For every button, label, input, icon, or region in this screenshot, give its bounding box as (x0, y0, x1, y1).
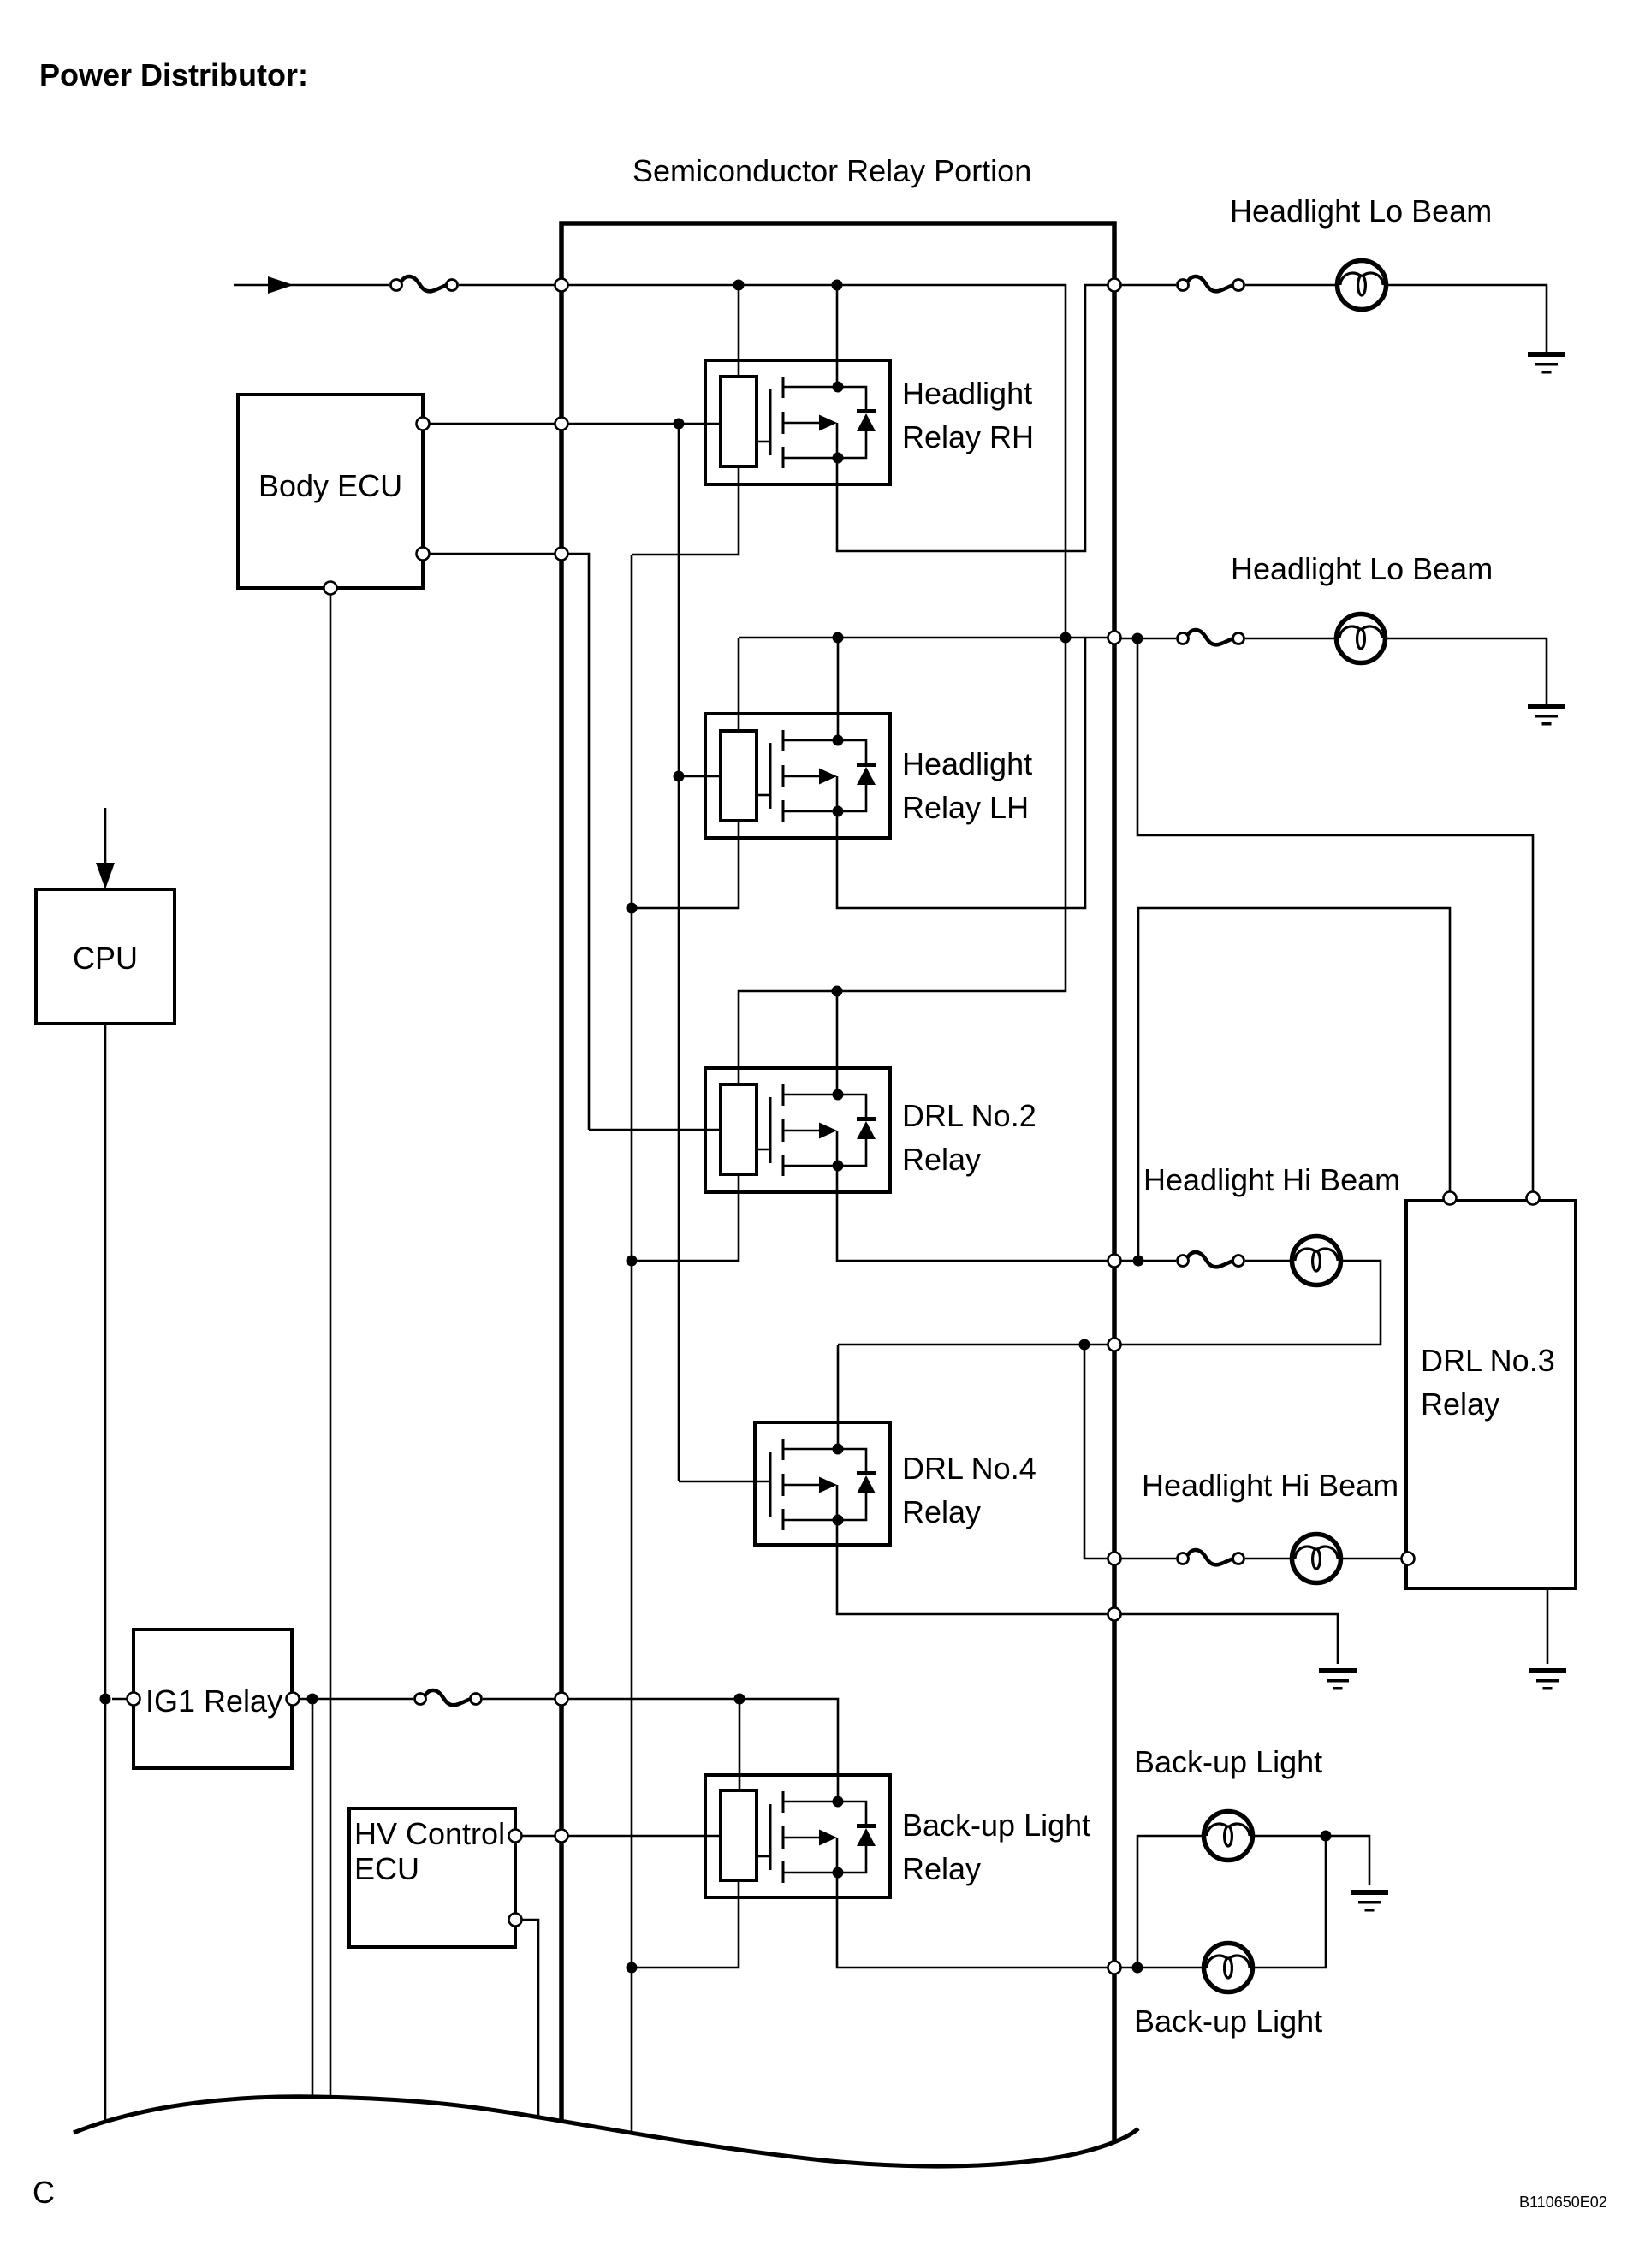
wire: branch down to DRL No.3 pin2 (1137, 638, 1533, 1193)
cut line (wavy continuation) (74, 2097, 1138, 2166)
junction dot: DRL No.2 feed to drain (832, 986, 843, 997)
HV Control ECU box (349, 1808, 515, 1947)
MOSFET Q1 (relay RH) (770, 377, 876, 468)
wire: Body ECU pin2 to box (430, 553, 555, 555)
svg-text:Headlight Lo Beam: Headlight Lo Beam (1231, 551, 1493, 586)
wire: drop to Back-up resistor top (739, 1699, 741, 1790)
semiconductor relay portion box (left, top, right edges) (561, 223, 1114, 2140)
wire: fuse to bulb (1245, 638, 1336, 640)
ground (lo-beam RH) (1528, 352, 1565, 374)
connector: box entry, DRL No.4 feed (1108, 1339, 1121, 1351)
svg-text:Headlight: Headlight (902, 376, 1032, 411)
connector: box entry, IG1 feed (555, 1693, 568, 1706)
wire: drop to relay LH drain (837, 638, 840, 741)
wire: Back-up source output to exit (837, 1867, 1108, 1968)
CPU box (36, 889, 175, 1024)
connector: box entry, HV ECU control (555, 1830, 568, 1843)
wire: branch up to DRL No.3 pin1 (1138, 908, 1450, 1261)
svg-text:IG1 Relay: IG1 Relay (145, 1683, 282, 1719)
wire: Back-up relay gate link (757, 1855, 770, 1858)
fuse F3 (lo-beam LH) (1178, 630, 1244, 644)
MOSFET Q4 (DRL No.4) (770, 1439, 876, 1530)
wire: to IG1 relay input (112, 1698, 127, 1701)
wire: relay LH resistor bottom to control rail (632, 821, 739, 908)
wire: Back-up relay control inside box (568, 1835, 721, 1838)
wire: lo-beam RH circuit (1121, 284, 1176, 287)
wire: relay RH source output to lo-beam RH exit (837, 285, 1108, 551)
svg-text:DRL No.4: DRL No.4 (902, 1451, 1036, 1486)
svg-text:Power Distributor:: Power Distributor: (39, 57, 308, 92)
svg-text:Relay: Relay (902, 1142, 981, 1177)
junction dot: lo-beam LH branch (1132, 633, 1143, 644)
junction dot: hi-beam RH branch (1133, 1256, 1144, 1267)
junction dot: feed to Back-up resistor (734, 1694, 745, 1705)
wire: drop to DRL No.2 drain (836, 991, 839, 1095)
wire: HV ECU pin to box (522, 1835, 555, 1838)
svg-text:Headlight Hi Beam: Headlight Hi Beam (1142, 1468, 1398, 1503)
wire: drop to relay LH resistor top (738, 638, 740, 731)
svg-text:Relay LH: Relay LH (902, 790, 1029, 825)
junction dot: rail at DRL No.2 output line (627, 1256, 638, 1267)
wire: relay RH/LH/DRL4 control line inside box (568, 423, 721, 425)
wire: DRL No.3 bottom to ground (1547, 1590, 1549, 1664)
svg-text:Back-up Light: Back-up Light (1134, 1744, 1322, 1779)
junction dot: CPU line to IG1 relay (100, 1694, 111, 1705)
ground (lo-beam LH) (1528, 704, 1565, 726)
wire: riser to hi-beam LH exit (1084, 1345, 1108, 1559)
wire: HV ECU lower pin down to cut line (522, 1920, 538, 2117)
battery feed arrow (234, 284, 389, 287)
svg-text:Headlight Lo Beam: Headlight Lo Beam (1230, 193, 1492, 229)
wire: DRL No.2 source output to hi-beam exit (837, 1167, 1108, 1261)
wire: lo-beam LH feed line (739, 637, 1108, 639)
wire: IG1 feed bus inside box (568, 1699, 838, 1802)
wire: Body ECU bottom pin down to cut line (330, 595, 332, 2099)
IG1 Relay box (134, 1630, 292, 1768)
resistor (DRL No.2 control) (721, 1084, 757, 1174)
wire: relay LH control (679, 775, 721, 778)
wire: bulb return into box (DRL No.4 feed) (1121, 1261, 1381, 1345)
relay DRL No.4 outer box (755, 1422, 890, 1545)
wire: bulb to ground (1387, 285, 1547, 352)
connector: box exit, back-up output (1108, 1962, 1121, 1974)
wire: bulb to ground (1386, 638, 1547, 704)
fuse F5 (hi-beam LH) (1178, 1550, 1244, 1564)
wire: IG1 output to fuse (300, 1698, 413, 1701)
connector: box exit, hi-beam RH (1108, 1255, 1121, 1268)
MOSFET Q5 (Back-up Light Relay) (770, 1791, 876, 1883)
junction dot: hi-beam LH rail tap (1079, 1339, 1090, 1351)
svg-text:Headlight: Headlight (902, 746, 1032, 781)
svg-text:B110650E02: B110650E02 (1519, 2194, 1607, 2211)
svg-text:ECU: ECU (354, 1851, 419, 1886)
svg-text:Body ECU: Body ECU (258, 468, 402, 503)
connector: IG1 input (128, 1693, 140, 1706)
MOSFET Q3 (DRL No.2) (770, 1084, 876, 1176)
connector: box entry, Body ECU pin2 (555, 548, 568, 561)
fuse F1 (main feed) (391, 276, 458, 291)
resistor (relay LH control) (721, 731, 757, 821)
wire: main power bus inside box (568, 285, 1066, 1084)
wire: drop to relay RH drain (836, 285, 839, 387)
svg-text:Relay: Relay (902, 1851, 981, 1886)
fuse F6 (IG1) (415, 1690, 482, 1705)
junction dot: IG1 output branch (307, 1694, 318, 1705)
relay Back-up Light outer box (705, 1775, 890, 1897)
bulb: headlight lo beam LH (1337, 614, 1386, 663)
Body ECU box (238, 395, 423, 588)
junction dot: power to relay RH drain (832, 280, 843, 291)
connector: box exit, lo-beam LH (1108, 632, 1121, 644)
wire: back-up light 2 return riser (1253, 1836, 1326, 1968)
wire: DRL No.2 gate link (757, 1149, 770, 1151)
junction dot: power to relay RH resistor (733, 280, 745, 291)
wire: CPU output down to cut line (104, 1024, 107, 2121)
wire: fuse to bulb (1245, 1260, 1292, 1262)
wire: branch down to cut line (312, 1699, 314, 2097)
svg-text:Back-up Light: Back-up Light (902, 1808, 1090, 1843)
wire: riser to back-up light 1 (1137, 1836, 1203, 1968)
wire: bulb to DRL No.3 relay (1341, 1558, 1401, 1560)
connector: Body ECU pin2 (417, 548, 430, 561)
wire: relay RH resistor bottom to control rail (632, 466, 739, 555)
wire: drop to DRL No.4 drain (837, 1345, 840, 1446)
connector: box exit, hi-beam LH (1108, 1553, 1121, 1565)
connector: Body ECU bottom pin (324, 582, 337, 595)
wire: drop to relay RH resistor top (738, 285, 740, 377)
resistor (Back-up relay control) (721, 1790, 757, 1880)
bulb: back-up light 2 (1204, 1944, 1253, 1992)
wire: control vertical x=793 (678, 424, 680, 1481)
connector: box entry, battery feed (555, 279, 568, 292)
ground (DRL No.3) (1529, 1668, 1566, 1690)
ground (DRL No.4 output) (1319, 1668, 1357, 1690)
svg-text:DRL No.2: DRL No.2 (902, 1098, 1036, 1133)
resistor (relay RH control) (721, 377, 757, 466)
connector: DRL No.3 left pin (1402, 1553, 1415, 1565)
wire: fuse to bulb (1245, 284, 1337, 287)
junction dot: LH control tap (674, 771, 685, 782)
junction dot: back-up branch (1132, 1962, 1143, 1974)
fuse F4 (hi-beam RH) (1178, 1252, 1244, 1267)
wire: back-up light 1 to ground node (1253, 1836, 1369, 1885)
svg-text:Headlight Hi Beam: Headlight Hi Beam (1143, 1162, 1400, 1197)
svg-text:CPU: CPU (73, 941, 138, 976)
DRL No.3 Relay box (1406, 1201, 1576, 1588)
wire: DRL No.4 output to ground (1121, 1614, 1338, 1664)
connector: box entry, Body ECU pin1 (555, 418, 568, 430)
bulb: headlight hi beam RH (1292, 1237, 1341, 1285)
connector: DRL No.3 top pin1 (1444, 1192, 1457, 1205)
wire: control rail (vertical) (631, 555, 633, 2134)
svg-text:Semiconductor Relay Portion: Semiconductor Relay Portion (632, 153, 1031, 188)
svg-text:HV Control: HV Control (354, 1816, 505, 1851)
wire: hi-beam RH circuit (1121, 1260, 1176, 1262)
relay LH outer box (705, 714, 890, 838)
wire: hi-beam LH circuit (1121, 1558, 1176, 1560)
junction dot: power rail to lo-beam LH feed (1060, 632, 1072, 644)
svg-text:Relay: Relay (1421, 1386, 1499, 1422)
bulb: headlight hi beam LH (1292, 1535, 1341, 1583)
connector: HV ECU lower pin (509, 1914, 522, 1927)
wire: DRL No.2 resistor bottom to control rail (632, 1174, 739, 1261)
wire: DRL No.4 source output to exit (837, 1521, 1108, 1614)
wire: Body ECU pin1 to box (430, 423, 555, 425)
junction dot: rail at LH output line (627, 903, 638, 914)
wire: relay LH gate link (757, 794, 770, 797)
connector: box exit, lo-beam RH (1108, 279, 1121, 292)
wire: DRL No.2 control line (568, 554, 721, 1130)
wire: fuse F1 to box entry (459, 284, 555, 287)
wire: DRL No.4 feed from hi-beam RH return (838, 1344, 1108, 1346)
svg-text:Back-up Light: Back-up Light (1134, 2004, 1322, 2039)
wire: fuse to box entry (483, 1698, 555, 1701)
ground (back-up lights) (1351, 1890, 1388, 1912)
wire: back-up output line (1121, 1967, 1203, 1969)
connector: DRL No.3 top pin2 (1527, 1192, 1540, 1205)
connector: Body ECU pin1 (417, 418, 430, 430)
wire: DRL No.4 control (679, 1481, 769, 1483)
wire: Back-up resistor bottom to control rail (632, 1880, 739, 1968)
svg-text:Relay: Relay (902, 1494, 981, 1529)
wire: relay RH gate link (757, 441, 770, 443)
junction dot: back-up ground node (1321, 1831, 1332, 1842)
wire: lo-beam LH circuit (1121, 638, 1176, 640)
wire: relay LH source output riser to lo-beam LH line (837, 638, 1085, 908)
CPU feed arrow (104, 808, 107, 864)
connector: box exit, DRL No.4 output (1108, 1608, 1121, 1621)
fuse F2 (lo-beam RH) (1178, 276, 1244, 291)
junction dot: rail at Back-up output line (627, 1962, 638, 1974)
connector: IG1 output (287, 1693, 300, 1706)
wire: fuse to bulb (1245, 1558, 1292, 1560)
relay RH outer box (705, 360, 890, 484)
svg-text:DRL No.3: DRL No.3 (1421, 1343, 1555, 1378)
svg-text:Relay RH: Relay RH (902, 419, 1034, 454)
bulb: back-up light 1 (1204, 1812, 1253, 1861)
junction dot: RH control tap (674, 419, 685, 430)
bulb: headlight lo beam RH (1338, 261, 1387, 310)
MOSFET Q2 (relay LH) (770, 730, 876, 822)
svg-text:C: C (33, 2175, 55, 2210)
junction dot: feed to relay LH drain (833, 632, 844, 644)
connector: HV ECU upper pin (509, 1830, 522, 1843)
relay DRL No.2 outer box (705, 1068, 890, 1192)
